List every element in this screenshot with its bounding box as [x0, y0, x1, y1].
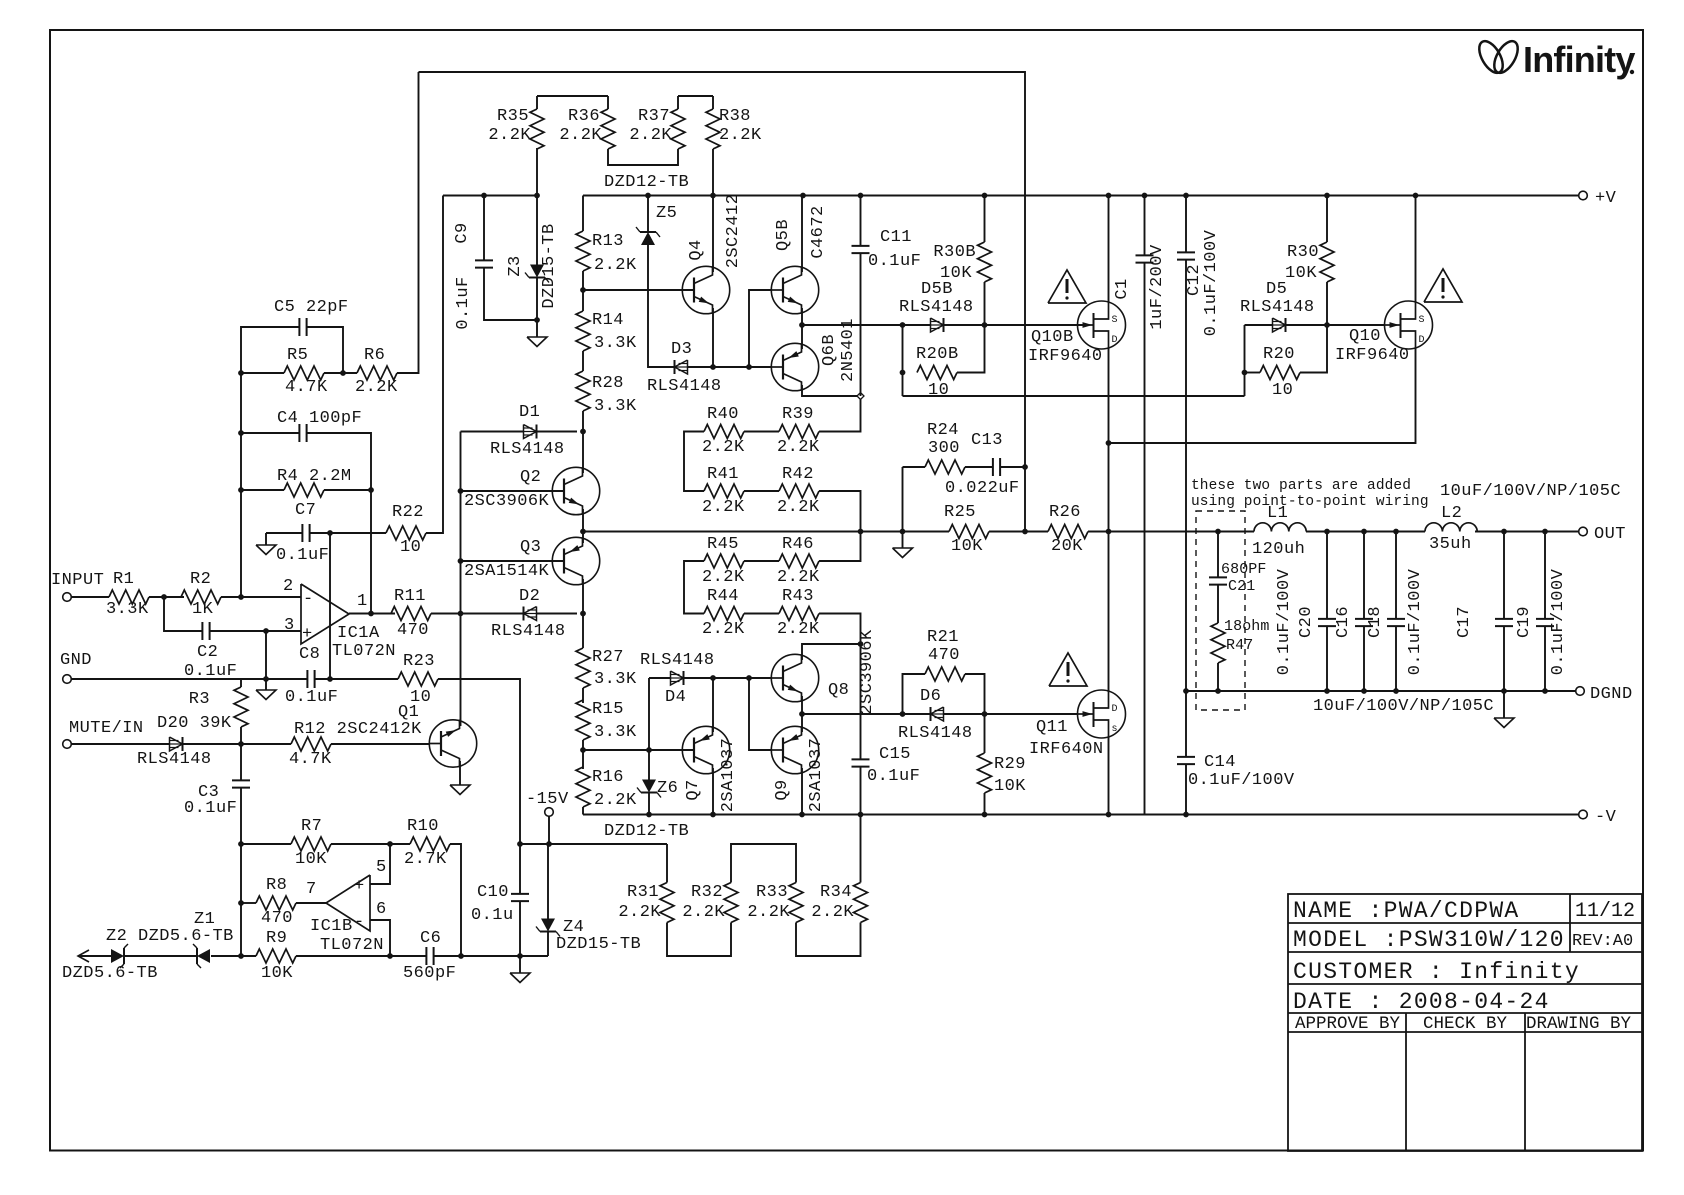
wire: [461, 560, 565, 562]
svg-text:R4 2.2M: R4 2.2M: [277, 467, 352, 486]
diode D5B: [899, 280, 974, 332]
wire: [582, 411, 584, 432]
capacitor C5: [274, 298, 349, 336]
wire: [819, 532, 861, 562]
junction diamond: [857, 393, 864, 400]
svg-text:R24: R24: [927, 421, 959, 440]
wire: [1088, 531, 1254, 533]
junction: [238, 487, 244, 493]
wire: [802, 385, 857, 396]
svg-text:MUTE/IN: MUTE/IN: [69, 719, 144, 738]
svg-text:C1: C1: [1113, 278, 1132, 299]
junction: [161, 594, 167, 600]
junction: [1022, 529, 1028, 535]
svg-text:0.1u: 0.1u: [471, 906, 514, 925]
resistor R32: [682, 883, 738, 923]
zener Z1: [193, 910, 215, 968]
svg-text:10K: 10K: [994, 777, 1026, 796]
junction: [238, 841, 244, 847]
svg-text:Q10B: Q10B: [1031, 328, 1074, 347]
wire: [731, 844, 796, 883]
junction: [1106, 440, 1112, 446]
svg-text:10K: 10K: [1285, 264, 1317, 283]
warning triangle: [1049, 653, 1087, 686]
wire: [1544, 532, 1546, 620]
svg-text:-V: -V: [1595, 808, 1617, 827]
svg-text:D20 39K: D20 39K: [157, 714, 232, 733]
junction: [458, 611, 464, 617]
junction: [646, 747, 652, 753]
junction: [800, 193, 806, 199]
wire: [537, 95, 608, 97]
node DGND: [1576, 685, 1633, 704]
svg-text:11/12: 11/12: [1575, 900, 1635, 923]
transistor Q4: [682, 194, 743, 314]
note text: [1191, 478, 1429, 510]
junction: [900, 322, 906, 328]
resistor R5: [284, 346, 328, 397]
svg-text:2.2K: 2.2K: [811, 903, 854, 922]
svg-text:R6: R6: [364, 346, 385, 365]
svg-text:RLS4148: RLS4148: [640, 651, 715, 670]
svg-text:R16: R16: [592, 768, 624, 787]
resistor R30: [1285, 242, 1334, 283]
svg-text:0.1uF: 0.1uF: [867, 767, 920, 786]
wire: [1185, 196, 1187, 253]
wire: [1326, 282, 1328, 325]
svg-text:0.1uF: 0.1uF: [285, 688, 338, 707]
node MUTE/IN: [63, 719, 144, 748]
wire: [547, 844, 549, 919]
inductor L1: [1252, 504, 1306, 559]
svg-text:RLS4148: RLS4148: [137, 750, 212, 769]
svg-text:300: 300: [928, 439, 960, 458]
wire: [315, 678, 398, 680]
node GND: [60, 651, 92, 683]
junction: [858, 529, 864, 535]
junction: [263, 628, 269, 634]
svg-text:APPROVE BY: APPROVE BY: [1295, 1014, 1401, 1034]
svg-text:R44: R44: [707, 587, 739, 606]
node DGND line: [1186, 690, 1576, 692]
wire: [483, 196, 485, 261]
svg-text:R31: R31: [627, 883, 659, 902]
svg-text:Z5: Z5: [656, 204, 677, 223]
transistor Q1: [398, 703, 477, 768]
junction: [799, 812, 805, 818]
wire: [241, 432, 299, 434]
wire: [370, 490, 372, 614]
junction: [1106, 529, 1112, 535]
junction: [340, 370, 346, 376]
svg-text:0.1uF/100V: 0.1uF/100V: [1406, 568, 1425, 675]
svg-text:Q6B: Q6B: [820, 334, 839, 366]
svg-text:Q11: Q11: [1036, 718, 1068, 737]
label 0.1uF/100V: [1275, 568, 1294, 675]
svg-text:C5 22pF: C5 22pF: [274, 298, 349, 317]
wire: [307, 327, 343, 373]
svg-text:Z1: Z1: [194, 910, 215, 929]
junction: [1106, 193, 1112, 199]
svg-text:+: +: [354, 877, 365, 896]
node OUT: [1579, 525, 1626, 544]
svg-text:S: S: [1112, 315, 1118, 326]
wire: [902, 325, 904, 396]
wire: [240, 788, 242, 844]
junction: [1215, 529, 1221, 535]
wire: [1326, 196, 1328, 243]
junction: [580, 747, 586, 753]
wire: [802, 324, 931, 326]
junction: [1393, 688, 1399, 694]
transistor Q7: [682, 726, 738, 812]
wire: [1144, 196, 1146, 256]
wire: [1503, 626, 1505, 691]
wire: [329, 533, 331, 679]
wire: [582, 432, 584, 471]
svg-text:C10: C10: [477, 883, 509, 902]
wire: [860, 815, 862, 883]
svg-text:RLS4148: RLS4148: [1240, 298, 1315, 317]
svg-text:2.2K: 2.2K: [488, 126, 531, 145]
junction: [238, 953, 244, 959]
svg-text:R7: R7: [301, 817, 322, 836]
junction: [1324, 688, 1330, 694]
wire: [1306, 531, 1425, 533]
svg-text:Q7: Q7: [684, 779, 703, 800]
svg-text:R42: R42: [782, 465, 814, 484]
wire: [431, 613, 453, 615]
wire: [519, 901, 521, 956]
svg-text:7: 7: [306, 880, 317, 899]
svg-text:MODEL :PSW310W/120: MODEL :PSW310W/120: [1293, 927, 1565, 953]
svg-text:0.022uF: 0.022uF: [945, 479, 1020, 498]
wire: [801, 714, 803, 732]
capacitor C20: [1297, 606, 1336, 638]
svg-text:DZD12-TB: DZD12-TB: [604, 822, 689, 841]
junction: [710, 193, 716, 199]
resistor R1: [106, 570, 149, 619]
svg-text:3.3K: 3.3K: [594, 397, 637, 416]
capacitor C2: [184, 622, 237, 681]
wire: [547, 932, 549, 956]
resistor R42: [777, 465, 820, 517]
svg-text:D5: D5: [1266, 280, 1287, 299]
wire: [1185, 691, 1187, 757]
junction: [517, 841, 523, 847]
wire: [582, 740, 584, 769]
svg-text:R2: R2: [190, 570, 211, 589]
resistor R22: [386, 503, 426, 557]
capacitor C12: [1177, 229, 1221, 336]
node -15V: [526, 790, 569, 816]
junction: [1183, 688, 1189, 694]
wire: [1475, 531, 1579, 533]
svg-text:R30B: R30B: [933, 243, 976, 262]
svg-text:C4672: C4672: [809, 205, 828, 258]
junction: [982, 711, 988, 717]
svg-text:0.1uF: 0.1uF: [276, 546, 329, 565]
transistor Q2: [464, 467, 600, 515]
wire: [903, 466, 926, 468]
svg-text:470: 470: [261, 909, 293, 928]
wire: [860, 253, 862, 396]
svg-text:3.3K: 3.3K: [106, 600, 149, 619]
junction: [263, 676, 269, 682]
svg-text:S: S: [1419, 315, 1425, 326]
svg-text:470: 470: [928, 646, 960, 665]
junction: [982, 812, 988, 818]
wire: [582, 196, 584, 232]
diode D3: [647, 340, 722, 396]
resistor R25: [944, 503, 989, 556]
junction: [746, 675, 752, 681]
resistor R8: [256, 876, 296, 928]
wire: [744, 490, 779, 492]
wire: [582, 351, 584, 371]
wire: [331, 743, 430, 745]
warning triangle: [1048, 270, 1086, 303]
svg-text:0.1uF/100V: 0.1uF/100V: [1549, 568, 1568, 675]
zener Z2: [62, 927, 234, 983]
wire: [582, 509, 584, 532]
svg-text:10: 10: [400, 538, 421, 557]
resistor R41: [702, 465, 745, 517]
junction: [1542, 688, 1548, 694]
svg-text:Q5B: Q5B: [774, 219, 793, 251]
wire: [1245, 324, 1273, 326]
svg-text:2.2K: 2.2K: [777, 498, 820, 517]
svg-text:2SA1037: 2SA1037: [719, 738, 738, 813]
resistor R20B: [916, 345, 959, 400]
wire: [460, 614, 462, 727]
svg-text:C9: C9: [453, 222, 472, 243]
wire: [1217, 663, 1219, 691]
svg-text:2.2K: 2.2K: [719, 126, 762, 145]
wire: [678, 95, 713, 97]
pin 5: [376, 858, 387, 877]
resistor R39: [777, 405, 820, 457]
junction: [368, 611, 374, 617]
warning triangle: [1424, 269, 1462, 302]
wire: [71, 596, 109, 598]
junction: [982, 193, 988, 199]
resistor R44: [702, 587, 745, 639]
svg-text:Q10: Q10: [1349, 327, 1381, 346]
svg-text:CUSTOMER : Infinity: CUSTOMER : Infinity: [1293, 959, 1580, 985]
svg-text:-15V: -15V: [526, 790, 569, 809]
svg-text:R11: R11: [394, 587, 426, 606]
junction: [458, 488, 464, 494]
wire: [240, 744, 242, 781]
label 10uF/100V/NP/105C: [1313, 697, 1494, 716]
svg-text:R12 2SC2412K: R12 2SC2412K: [294, 720, 422, 739]
wire: [71, 678, 307, 680]
svg-text:R9: R9: [266, 929, 287, 948]
svg-text:1uF/200V: 1uF/200V: [1148, 244, 1167, 330]
svg-text:C20: C20: [1297, 606, 1316, 638]
junction: [1393, 529, 1399, 535]
wire: [801, 308, 803, 325]
resistor R12: [289, 720, 422, 769]
wire: [860, 196, 862, 247]
junction: [710, 364, 716, 370]
junction: [1413, 193, 1419, 199]
label 2SC3906K: [858, 629, 877, 715]
wire: [583, 749, 694, 751]
ground: [256, 679, 276, 700]
wire: [71, 743, 169, 745]
wire: [484, 268, 537, 320]
svg-text:2.2K: 2.2K: [559, 126, 602, 145]
svg-text:R1: R1: [113, 570, 134, 589]
svg-text:C11: C11: [880, 228, 912, 247]
wire: [965, 674, 985, 714]
resistor R47: [1211, 618, 1270, 663]
ground: [893, 548, 913, 558]
svg-text:2.7K: 2.7K: [404, 850, 447, 869]
diode D5: [1240, 280, 1315, 332]
resistor R10: [404, 817, 450, 869]
junction: [900, 370, 906, 376]
svg-text:R37: R37: [638, 107, 670, 126]
wire: [1415, 196, 1417, 303]
junction: [238, 370, 244, 376]
svg-text:10K: 10K: [295, 850, 327, 869]
wire: [435, 613, 524, 615]
wire: [537, 431, 578, 433]
MOSFET Q10B: [1028, 301, 1126, 366]
svg-text:R47: R47: [1226, 637, 1253, 654]
wire: [520, 843, 667, 845]
wire: [744, 613, 779, 615]
capacitor C8: [285, 645, 338, 707]
junction: [458, 558, 464, 564]
wire: [324, 372, 357, 374]
wire: [693, 289, 695, 291]
svg-text:TL072N: TL072N: [332, 642, 396, 661]
wire: [240, 727, 242, 744]
resistor R6: [355, 346, 398, 397]
wire: [712, 768, 714, 815]
svg-text:RLS4148: RLS4148: [898, 724, 973, 743]
wire: [1109, 348, 1416, 443]
junction: [900, 711, 906, 717]
wire: [1395, 626, 1397, 691]
wire: [607, 96, 609, 109]
wire: [666, 844, 668, 883]
junction: [645, 193, 651, 199]
resistor R46: [777, 535, 820, 587]
wire: [1144, 263, 1146, 815]
resistor R13: [576, 231, 637, 275]
svg-text:10K: 10K: [951, 537, 983, 556]
svg-text:D1: D1: [519, 403, 540, 422]
resistor R38: [706, 107, 762, 149]
svg-text:R29: R29: [994, 755, 1026, 774]
svg-text:R21: R21: [927, 628, 959, 647]
svg-text:Infinity: Infinity: [1523, 39, 1635, 80]
svg-text:D: D: [1112, 335, 1118, 346]
svg-text:Q2: Q2: [520, 468, 541, 487]
resistor R37: [629, 107, 685, 149]
wire: [984, 196, 986, 243]
svg-text:6: 6: [376, 900, 387, 919]
svg-text:R8: R8: [266, 876, 287, 895]
svg-text:R20B: R20B: [916, 345, 959, 364]
svg-text:R26: R26: [1049, 503, 1081, 522]
diode D4: [640, 651, 715, 707]
label DZD12-TB: [604, 173, 689, 192]
svg-text:3.3K: 3.3K: [594, 723, 637, 742]
wire: [461, 490, 565, 492]
svg-text:2.2K: 2.2K: [702, 498, 745, 517]
junction: [858, 641, 864, 647]
junction: [1142, 193, 1148, 199]
svg-text:3.3K: 3.3K: [594, 334, 637, 353]
junction: [580, 287, 586, 293]
wire: [957, 325, 985, 373]
svg-text:0.1uF: 0.1uF: [454, 276, 473, 329]
svg-text:10uF/100V/NP/105C: 10uF/100V/NP/105C: [1440, 482, 1621, 501]
wire: [221, 596, 301, 598]
wire: [902, 467, 904, 548]
svg-text:L2: L2: [1441, 504, 1462, 523]
svg-text:DATE : 2008-04-24: DATE : 2008-04-24: [1293, 989, 1550, 1015]
wire: [744, 560, 779, 562]
wire: [647, 196, 649, 233]
wire: [712, 149, 714, 196]
resistor R7: [291, 817, 331, 869]
junction: [238, 594, 244, 600]
svg-text:4.7K: 4.7K: [289, 750, 332, 769]
transistor Q5B: [771, 205, 828, 314]
wire: [537, 613, 578, 615]
svg-text:10: 10: [928, 381, 949, 400]
svg-text:20K: 20K: [1051, 537, 1083, 556]
wire: [1544, 626, 1546, 691]
resistor R34: [811, 883, 867, 923]
junction: [1501, 529, 1507, 535]
ground: [1494, 691, 1514, 728]
wire: [265, 631, 267, 679]
junction: [1501, 688, 1507, 694]
wire: [819, 614, 861, 711]
svg-text:2.2K: 2.2K: [702, 568, 745, 587]
wire: [819, 399, 861, 432]
wire: [944, 713, 1079, 715]
wire: [649, 677, 670, 679]
svg-text:R36: R36: [568, 107, 600, 126]
svg-text:3.3K: 3.3K: [594, 670, 637, 689]
resistor R16: [576, 767, 637, 810]
wire: [548, 816, 550, 844]
wire: [667, 923, 731, 957]
capacitor C13: [945, 431, 1020, 498]
wire: [241, 843, 291, 845]
wire: [801, 696, 803, 714]
node INPUT: [51, 571, 104, 601]
dashed box: [1196, 511, 1245, 710]
resistor R45: [702, 535, 745, 587]
op-amp IC1A: [283, 577, 396, 661]
svg-text:18ohm: 18ohm: [1224, 618, 1270, 635]
transistor Q9: [771, 726, 826, 812]
junction: [327, 676, 333, 682]
svg-text:C19: C19: [1515, 606, 1534, 638]
wire: [1363, 532, 1365, 620]
svg-text:C2: C2: [197, 643, 218, 662]
